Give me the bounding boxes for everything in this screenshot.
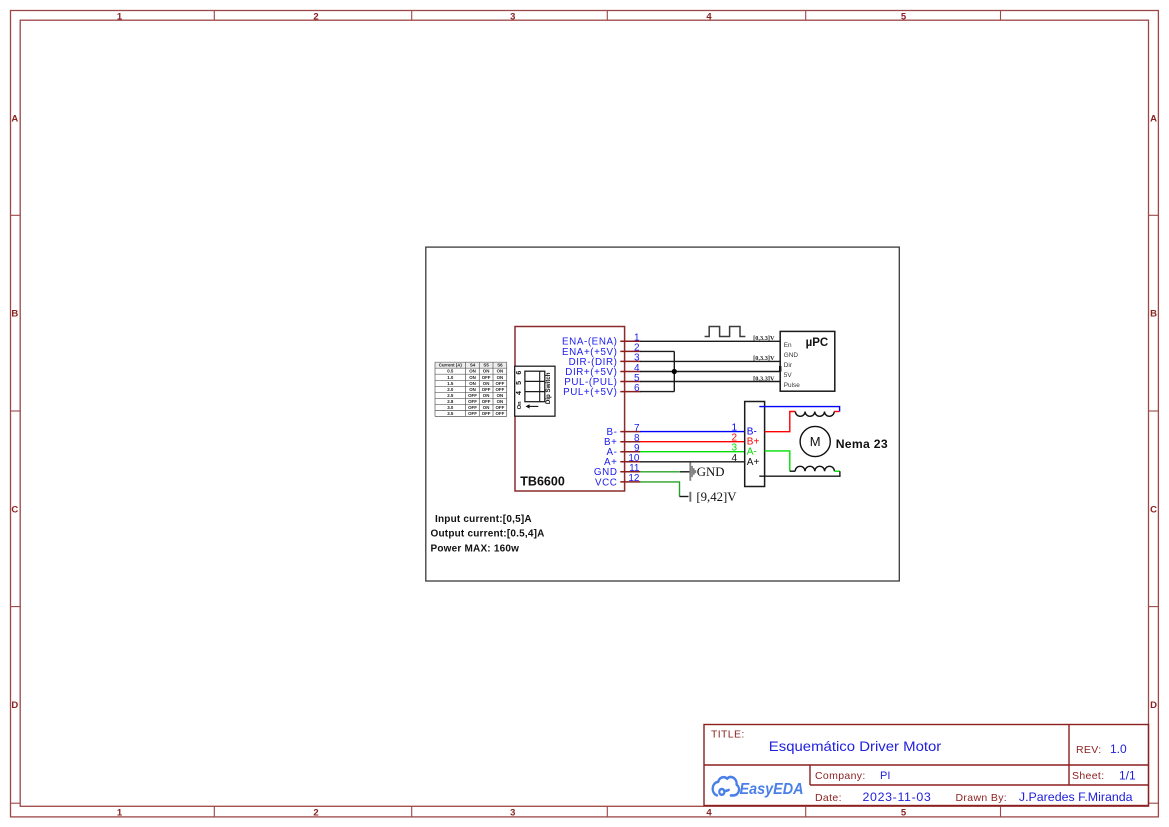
svg-text:Date:: Date: bbox=[815, 792, 842, 804]
svg-text:[0,3.3]V: [0,3.3]V bbox=[753, 335, 775, 342]
wire pin12 VCC bbox=[640, 482, 680, 497]
pin 7 B- bbox=[620, 431, 640, 433]
pin 1 ENA-(ENA) bbox=[620, 340, 640, 342]
svg-text:[9,42]V: [9,42]V bbox=[696, 490, 737, 504]
svg-text:En: En bbox=[784, 342, 792, 349]
svg-text:C: C bbox=[1150, 504, 1157, 515]
svg-text:D: D bbox=[1150, 700, 1157, 711]
power flag [9,42]V bbox=[689, 492, 691, 502]
svg-text:3: 3 bbox=[510, 11, 515, 22]
wire pin2 ENA+ to bus bbox=[640, 350, 674, 352]
wire pin7 B- blue bbox=[640, 431, 745, 433]
dip switch arrow bbox=[529, 405, 539, 407]
pin 10 A+ bbox=[620, 461, 640, 463]
svg-text:4: 4 bbox=[706, 11, 712, 22]
svg-text:A: A bbox=[1150, 113, 1157, 124]
svg-text:1/1: 1/1 bbox=[1119, 768, 1136, 782]
dip switch body bbox=[525, 371, 545, 402]
svg-text:OFF: OFF bbox=[496, 405, 505, 410]
svg-text:2.5: 2.5 bbox=[447, 393, 454, 398]
svg-text:2023-11-03: 2023-11-03 bbox=[863, 790, 932, 804]
svg-text:M: M bbox=[810, 434, 821, 449]
svg-text:VCC: VCC bbox=[595, 477, 618, 488]
pin 6 PUL+(+5V) bbox=[620, 391, 640, 393]
svg-text:GND: GND bbox=[697, 465, 725, 479]
svg-text:Input current:[0,5]A: Input current:[0,5]A bbox=[435, 514, 532, 525]
svg-text:1.5: 1.5 bbox=[447, 381, 454, 386]
svg-text:3.0: 3.0 bbox=[447, 405, 454, 410]
svg-text:Drawn By:: Drawn By: bbox=[956, 792, 1008, 804]
svg-text:5: 5 bbox=[901, 11, 907, 22]
svg-text:5: 5 bbox=[516, 381, 523, 385]
dip switch SW1 outline bbox=[515, 366, 555, 416]
uPC stub bbox=[779, 366, 781, 372]
schematic outline frame bbox=[426, 247, 900, 581]
svg-text:2.0: 2.0 bbox=[447, 387, 454, 392]
svg-text:6: 6 bbox=[516, 371, 523, 375]
title texts bbox=[711, 729, 1104, 804]
svg-text:S6: S6 bbox=[497, 363, 503, 368]
bus wire vertical bbox=[673, 351, 675, 391]
wire pin9 A- green bbox=[640, 451, 745, 453]
svg-text:Company:: Company: bbox=[815, 770, 866, 782]
svg-text:D: D bbox=[11, 700, 18, 711]
svg-text:Pulse: Pulse bbox=[784, 382, 800, 389]
svg-text:[0,3.3]V: [0,3.3]V bbox=[753, 375, 775, 382]
svg-text:12: 12 bbox=[628, 473, 640, 484]
current table bbox=[435, 362, 507, 368]
svg-text:1.0: 1.0 bbox=[447, 375, 454, 380]
svg-text:GND: GND bbox=[784, 352, 799, 359]
svg-text:ON: ON bbox=[497, 393, 504, 398]
svg-text:OFF: OFF bbox=[496, 381, 505, 386]
wire B- to coil L1 right bbox=[759, 407, 839, 412]
svg-text:ON: ON bbox=[497, 399, 504, 404]
EasyEDA logo bbox=[713, 777, 739, 795]
motor M1 bbox=[800, 426, 830, 456]
wire pin5 PUL- to uPC Pulse bbox=[640, 381, 780, 383]
svg-text:5V: 5V bbox=[784, 372, 793, 379]
svg-text:5: 5 bbox=[901, 808, 907, 819]
svg-text:On: On bbox=[517, 401, 523, 410]
svg-text:ON: ON bbox=[483, 369, 490, 374]
svg-text:Output current:[0.5,4]A: Output current:[0.5,4]A bbox=[431, 529, 545, 540]
coil L1 right stub bbox=[834, 411, 839, 413]
svg-text:ON: ON bbox=[497, 369, 504, 374]
pin 5 PUL-(PUL) bbox=[620, 381, 640, 383]
svg-text:OFF: OFF bbox=[496, 411, 505, 416]
svg-text:S4: S4 bbox=[470, 363, 476, 368]
svg-text:Power MAX: 160w: Power MAX: 160w bbox=[431, 543, 520, 554]
pin 2 ENA+(+5V) bbox=[620, 350, 640, 352]
dip switch digits 6 5 4 bbox=[516, 371, 523, 410]
wire A- to coil L2 left bbox=[765, 451, 790, 471]
wire A+ bottom bbox=[759, 471, 840, 476]
svg-text:B: B bbox=[11, 309, 18, 320]
svg-text:B: B bbox=[1150, 309, 1157, 320]
svg-text:A-: A- bbox=[747, 446, 757, 457]
svg-text:Dip Switch: Dip Switch bbox=[545, 372, 552, 404]
pulse waveform bbox=[705, 327, 746, 337]
svg-text:OFF: OFF bbox=[468, 411, 477, 416]
svg-text:OFF: OFF bbox=[468, 405, 477, 410]
pin 3 DIR-(DIR) bbox=[620, 360, 640, 362]
svg-text:4: 4 bbox=[706, 808, 712, 819]
svg-text:OFF: OFF bbox=[468, 393, 477, 398]
svg-text:PUL+(+5V): PUL+(+5V) bbox=[563, 387, 617, 398]
svg-text:OFF: OFF bbox=[482, 375, 491, 380]
pin 9 A- bbox=[620, 451, 640, 453]
wire B+ to coil L1 left bbox=[765, 412, 796, 432]
svg-text:ON: ON bbox=[483, 381, 490, 386]
wire pin3 DIR- to uPC Dir bbox=[640, 360, 780, 362]
svg-text:TB6600: TB6600 bbox=[520, 475, 565, 489]
svg-text:ON: ON bbox=[469, 381, 476, 386]
ground flag GND bbox=[689, 462, 696, 480]
svg-text:[0,3.3]V: [0,3.3]V bbox=[753, 355, 775, 362]
svg-text:ON: ON bbox=[469, 369, 476, 374]
coil L2 right stub bbox=[834, 470, 840, 472]
svg-text:REV:: REV: bbox=[1076, 744, 1102, 756]
svg-text:1.0: 1.0 bbox=[1110, 742, 1127, 756]
svg-text:2: 2 bbox=[313, 11, 318, 22]
driver U? TB6600 body bbox=[515, 327, 625, 492]
pin 4 DIR+(+5V) bbox=[620, 371, 640, 373]
svg-text:OFF: OFF bbox=[496, 387, 505, 392]
pin 12 VCC bbox=[620, 481, 640, 483]
pin 11 GND bbox=[620, 471, 640, 473]
svg-text:Esquemático Driver Motor: Esquemático Driver Motor bbox=[769, 739, 942, 754]
svg-text:TITLE:: TITLE: bbox=[711, 729, 745, 741]
svg-text:ON: ON bbox=[469, 375, 476, 380]
svg-text:EasyEDA: EasyEDA bbox=[740, 781, 804, 798]
svg-text:J.Paredes F.Miranda: J.Paredes F.Miranda bbox=[1019, 790, 1133, 804]
svg-text:S5: S5 bbox=[483, 363, 489, 368]
note texts bbox=[431, 514, 545, 554]
svg-text:OFF: OFF bbox=[468, 399, 477, 404]
svg-text:C: C bbox=[11, 504, 18, 515]
svg-text:µPC: µPC bbox=[806, 337, 829, 349]
svg-text:A+: A+ bbox=[747, 457, 760, 468]
svg-text:ON: ON bbox=[483, 405, 490, 410]
title block bbox=[704, 725, 1149, 806]
svg-text:1: 1 bbox=[117, 808, 123, 819]
svg-text:OFF: OFF bbox=[482, 399, 491, 404]
svg-text:2: 2 bbox=[313, 808, 318, 819]
pin 8 B+ bbox=[620, 441, 640, 443]
wire pin4 DIR+ to uPC 5V bbox=[640, 371, 780, 373]
wire pin1 ENA- to uPC En bbox=[640, 340, 780, 342]
svg-text:ON: ON bbox=[483, 393, 490, 398]
inductor L1 bbox=[795, 412, 834, 417]
inductor L2 bbox=[795, 466, 834, 471]
svg-text:ON: ON bbox=[469, 387, 476, 392]
svg-text:0.5: 0.5 bbox=[447, 369, 454, 374]
svg-text:2.8: 2.8 bbox=[447, 399, 454, 404]
connector P1 bbox=[745, 402, 765, 487]
svg-text:1: 1 bbox=[117, 11, 123, 22]
svg-text:OFF: OFF bbox=[482, 387, 491, 392]
svg-text:6: 6 bbox=[634, 383, 640, 394]
svg-text:4: 4 bbox=[516, 391, 523, 395]
wire pin10 A+ black bbox=[640, 461, 745, 463]
op-block U2 uPC bbox=[780, 331, 835, 391]
svg-text:OFF: OFF bbox=[482, 411, 491, 416]
svg-text:3.5: 3.5 bbox=[447, 411, 454, 416]
svg-text:Dir: Dir bbox=[784, 362, 793, 369]
svg-text:3: 3 bbox=[510, 808, 515, 819]
svg-text:PI: PI bbox=[880, 770, 890, 782]
svg-text:ON: ON bbox=[497, 375, 504, 380]
svg-text:Nema 23: Nema 23 bbox=[836, 437, 888, 451]
wire pin8 B+ red bbox=[640, 441, 745, 443]
svg-text:A: A bbox=[11, 113, 18, 124]
junction bbox=[672, 369, 677, 374]
svg-text:Sheet:: Sheet: bbox=[1072, 770, 1104, 782]
wire pin11 GND bbox=[640, 471, 680, 473]
svg-text:Current (A): Current (A) bbox=[439, 363, 463, 368]
wire pin6 PUL+ to bus bbox=[640, 391, 674, 393]
svg-text:4: 4 bbox=[731, 453, 737, 464]
